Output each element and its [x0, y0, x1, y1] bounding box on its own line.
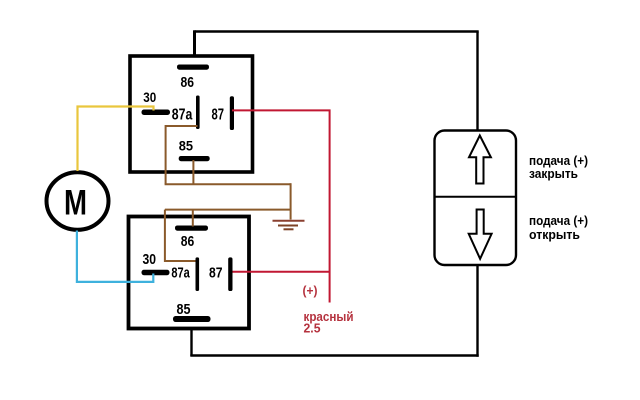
switch S1 up arrow	[469, 136, 491, 184]
relay K2 pin 30 terminal bar	[142, 270, 170, 275]
ground symbol	[273, 221, 305, 230]
svg-text:закрыть: закрыть	[529, 167, 578, 181]
svg-text:86: 86	[181, 74, 195, 91]
wire: brown to K2 pin 86	[192, 210, 194, 227]
relay K1 pin 30 terminal bar	[142, 110, 171, 116]
relay K2 box	[129, 217, 250, 329]
wire: red from K2 pin 87	[233, 271, 330, 273]
svg-text:(+): (+)	[303, 283, 318, 298]
wire: cyan from motor bottom to K2 pin 30	[77, 231, 153, 282]
wire: brown upper horizontal to ground	[165, 183, 291, 185]
wire: brown from K1 pin 87a down	[166, 126, 198, 184]
svg-text:87: 87	[209, 265, 223, 282]
relay K1 box	[130, 56, 253, 172]
wire: switch top lead	[476, 32, 478, 132]
relay K1 pin 87 terminal bar	[230, 96, 234, 130]
relay K2 pin 85 terminal bar	[173, 316, 211, 322]
relay K1 pin 85 terminal bar	[179, 156, 210, 161]
wire: brown to K2 pin 87a	[165, 210, 196, 261]
svg-text:30: 30	[143, 251, 157, 268]
switch S1 body	[435, 131, 517, 266]
svg-text:30: 30	[143, 90, 156, 105]
wire: brown from K1 pin 85 down	[192, 160, 194, 184]
svg-text:85: 85	[177, 302, 191, 318]
svg-text:87a: 87a	[172, 106, 193, 123]
svg-text:M: M	[64, 184, 87, 223]
svg-text:85: 85	[179, 137, 193, 153]
wire: drop from top rail to K1 pin 86	[193, 30, 196, 66]
relay K2 pin 87a terminal bar	[196, 257, 200, 291]
svg-text:открыть: открыть	[529, 228, 580, 242]
wire: brown lower horizontal to ground	[165, 209, 291, 211]
wire: brown vertical into ground symbol	[290, 183, 292, 219]
wire: switch bottom lead	[476, 264, 478, 357]
motor M1 circle	[47, 172, 109, 230]
relay K2 pin 86 terminal bar	[175, 226, 208, 231]
relay K1 pin 86 terminal bar	[177, 65, 209, 70]
svg-text:2.5: 2.5	[304, 321, 321, 336]
relay K1 pin 87a terminal bar	[196, 96, 200, 130]
svg-text:подача (+): подача (+)	[529, 214, 588, 228]
svg-text:87: 87	[212, 106, 225, 123]
svg-text:86: 86	[181, 233, 195, 250]
relay K2 pin 87 terminal bar	[228, 257, 232, 291]
wire: bottom rail from K2 pin 85 to switch bottom	[190, 354, 478, 356]
switch S1 divider	[435, 196, 517, 198]
wire: red from K1 pin 87 to (+) supply	[232, 110, 330, 302]
wire: top rail from relay K1 pin 86 to switch top	[195, 30, 479, 32]
switch S1 down arrow	[469, 210, 492, 259]
wire: yellow from motor top to K1 pin 30	[78, 107, 154, 172]
wire: drop from K2 pin 85 to bottom rail	[190, 322, 192, 356]
svg-text:87a: 87a	[171, 265, 190, 282]
